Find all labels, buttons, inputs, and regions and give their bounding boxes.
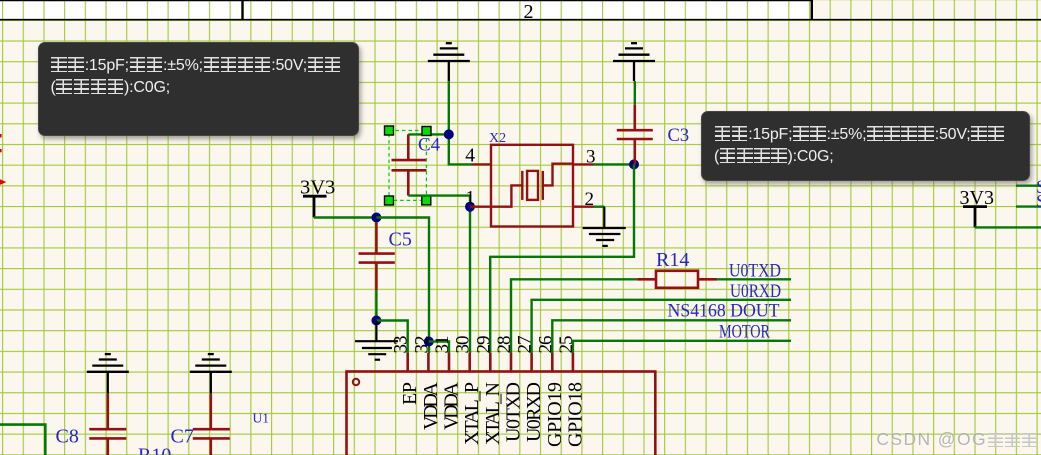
svg-text:C4: C4 [418,135,441,156]
svg-text:2: 2 [585,189,595,210]
capacitor C7 [193,394,230,455]
svg-text:NS4168 DOUT: NS4168 DOUT [668,301,780,322]
wire C4 bottom to node B [408,196,470,207]
svg-text:U0TXD: U0TXD [729,261,781,282]
red arrow left edge [0,179,6,185]
capacitor C8 [89,394,126,455]
ground GND1 (top, above C4/X2) [428,43,470,81]
svg-text:C3: C3 [668,126,690,146]
wire crystal pin 2 to GND3 [594,205,605,207]
C4 selection handles [385,126,432,205]
svg-text:GPIO18: GPIO18 [564,382,586,447]
svg-text:R10: R10 [138,444,171,455]
svg-text:XTAL_P: XTAL_P [461,382,483,445]
wire crystal pin 3 to node C [594,163,635,165]
IC U1 body [347,372,656,455]
svg-text:S: S [1036,192,1041,213]
node B junction [465,202,475,212]
IC pin stubs 33..25 [408,353,573,372]
wire node E to pin 31 [429,342,449,354]
svg-text:C8: C8 [56,426,79,448]
wire node F to pin 33 EP [376,321,407,354]
wire node B down to pin 30 XTAL_P [469,207,471,353]
svg-text:32: 32 [411,336,432,354]
svg-text:U0RXD: U0RXD [523,382,545,442]
crystal X2 [470,145,594,227]
wire C4 top to node A [408,133,449,135]
resistor R14 [637,271,717,288]
svg-text:C7: C7 [171,426,194,448]
ground GND2 (top, above C3) [613,43,655,81]
svg-text:2: 2 [524,1,534,23]
C4 selection box [389,131,426,201]
svg-text:U0TXD: U0TXD [503,382,525,442]
wire GND2 to C3 [634,81,636,105]
svg-text:U0RXD: U0RXD [730,281,781,302]
pin names EP..GPIO18 [399,381,586,447]
svg-text:XTAL_N: XTAL_N [482,382,504,445]
svg-text:31: 31 [432,336,453,354]
node C junction [629,159,639,169]
wire fragment right edge 2 [1016,205,1041,207]
svg-text:C5: C5 [389,229,412,251]
svg-text:U1: U1 [253,410,270,425]
ground GND5 (above C8) [87,354,129,394]
wire R14 to U0TXD [717,278,791,280]
svg-text:1: 1 [466,188,476,209]
svg-text:VDDA: VDDA [441,381,463,430]
red speck 1 [0,134,2,138]
svg-text:GPIO19: GPIO19 [544,382,566,447]
node A junction [444,129,454,139]
node D junction [371,213,381,223]
ground GND6 (above C7) [190,354,232,394]
ground GND3 (crystal pin 2) [583,207,626,246]
wire node D right and down to pin 32 [376,218,429,354]
wire GND1 to node A [448,81,450,134]
ground GND4 (below C5) [355,321,398,360]
sheet border top strip [0,0,1041,20]
wire node C to pin 29 XTAL_N [490,164,634,353]
capacitor C3 [617,105,653,165]
node E junction [424,337,434,347]
wire 3V3 right to edge [975,226,1041,228]
wire C5 bottom to node F [375,290,377,321]
tooltip 1 [38,42,359,136]
capacitor C4 [392,134,427,195]
svg-text:30: 30 [453,336,474,354]
wire node A to crystal pin 4 [449,134,472,164]
svg-text:33: 33 [391,336,412,354]
red speck 2 [0,149,2,152]
capacitor C5 [359,222,395,290]
pin numbers 33..25 [391,336,577,354]
wire pin 25 MOTOR [573,341,791,353]
wire corner bottom-left [0,425,45,455]
svg-text:4: 4 [465,146,475,167]
wire pin 28 to R14 [511,279,637,353]
watermark CSDN [876,429,1038,450]
wire pin 27 U0RXD [532,300,791,353]
svg-text:29: 29 [473,336,494,354]
node F junction [371,316,381,326]
svg-text:EP: EP [399,382,421,405]
svg-text:R14: R14 [656,249,689,271]
wire fragment right edge 1 [1016,184,1041,186]
svg-text:VDDA: VDDA [420,381,442,430]
svg-text:MOTOR: MOTOR [719,322,770,343]
wire pin 26 NS4168_DOUT [552,320,791,353]
wire 3V3 to node D [314,216,376,218]
svg-text:X2: X2 [489,131,506,146]
tooltip 2 [701,111,1030,181]
